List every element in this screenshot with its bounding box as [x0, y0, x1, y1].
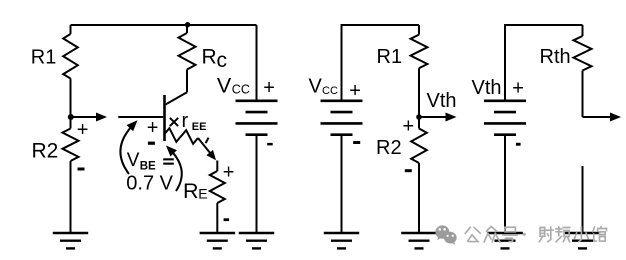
label: x mark on emitter: [170, 118, 178, 126]
wire: base input arrow: [71, 113, 107, 122]
battery Vcc, circuit 2: [321, 101, 363, 233]
svg-text:CC: CC: [322, 85, 338, 97]
wire: base lead: [118, 116, 163, 118]
resistor R2, circuit 2: [411, 117, 427, 233]
ground: below battery, circuit 3: [487, 233, 523, 248]
resistor R2: [63, 117, 79, 233]
label Rc: [202, 46, 228, 73]
arrow: output of Rth: [583, 113, 622, 122]
svg-text:c: c: [217, 49, 228, 72]
watermark: text: [465, 227, 606, 243]
svg-text:BE: BE: [140, 160, 156, 172]
svg-text:+: +: [512, 77, 524, 99]
svg-text:+: +: [403, 116, 415, 138]
label: battery minus sign, circuit 3: [516, 143, 521, 146]
svg-text:Rth: Rth: [540, 46, 571, 68]
arrow: Vth output: [419, 113, 457, 122]
annotation: Vbe = 0.7 V with curved arrows: [120, 120, 181, 194]
label: RE minus sign: [224, 218, 230, 221]
wire: top rail, circuit 2: [342, 25, 420, 101]
label: R2 minus sign: [78, 168, 85, 171]
svg-text:CC: CC: [232, 82, 250, 96]
label Vcc, circuit 2: [309, 76, 338, 98]
resistor Rth: [574, 25, 592, 117]
watermark: WeChat icon: [435, 225, 456, 244]
svg-text:R2: R2: [32, 139, 59, 162]
label: R2 minus sign, circuit 2: [405, 169, 412, 172]
resistor Rc: [179, 25, 196, 92]
svg-text:R: R: [202, 46, 217, 69]
svg-text:Vth: Vth: [472, 77, 502, 99]
node: R1/R2/base junction dot: [68, 114, 74, 120]
svg-text:V: V: [217, 74, 232, 98]
svg-text:+: +: [223, 162, 235, 184]
svg-text:+: +: [263, 77, 275, 99]
svg-text:r: r: [182, 110, 189, 132]
battery Vth, circuit 3: [484, 101, 526, 233]
label: battery minus sign, circuit 2: [353, 141, 360, 144]
label: battery minus sign, circuit 1: [267, 143, 273, 146]
svg-text:+: +: [349, 80, 361, 102]
ground: below open terminal: [565, 233, 600, 248]
node: Vth junction dot: [416, 114, 422, 120]
svg-text:R1: R1: [377, 46, 403, 68]
svg-text:EE: EE: [192, 121, 207, 133]
svg-text:R1: R1: [31, 46, 57, 68]
label: tick mark near rEE: [206, 138, 209, 144]
label RE: [183, 179, 208, 203]
wire: top rail, circuit 3: [505, 25, 583, 101]
svg-text:E: E: [198, 186, 207, 202]
resistor R1, circuit 2: [411, 25, 428, 117]
label: base-emitter minus sign: [148, 142, 155, 145]
ground: below R2: [53, 233, 88, 248]
svg-text:V: V: [127, 150, 140, 171]
ground: below RE: [200, 233, 236, 248]
ground: below battery, circuit 1: [239, 233, 274, 248]
svg-text:R2: R2: [376, 137, 402, 159]
label Vcc: [217, 74, 250, 98]
node: junction dot on top rail: [185, 22, 190, 27]
resistor RE: [210, 161, 225, 234]
svg-text:Vth: Vth: [427, 90, 457, 112]
wire: open terminal, circuit 3: [582, 166, 584, 233]
label rEE: [182, 110, 207, 133]
battery Vcc, circuit 1: [236, 25, 278, 233]
resistor rEE: emitter zigzag with emitter arrow: [165, 128, 217, 160]
svg-text:+: +: [147, 117, 159, 139]
ground: below battery, circuit 2: [324, 233, 359, 248]
svg-text:R: R: [183, 179, 199, 203]
ground: below R2, circuit 2: [401, 233, 437, 248]
svg-text:0.7 V: 0.7 V: [126, 172, 173, 194]
svg-text:+: +: [77, 119, 89, 141]
wire: Vcc top rail, circuit 1: [71, 24, 257, 26]
transistor Q1: base bar and collector lead: [165, 92, 188, 141]
resistor R1: [63, 25, 78, 117]
svg-text:V: V: [309, 76, 323, 98]
